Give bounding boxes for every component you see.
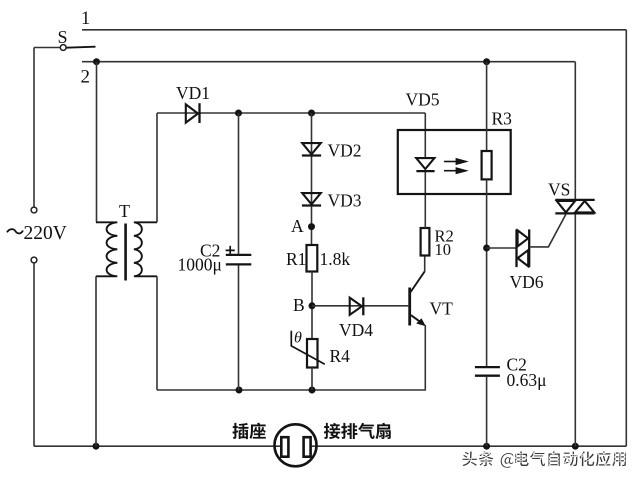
svg-text:VS: VS — [548, 180, 570, 200]
wire C2b bottom lead — [486, 377, 488, 446]
capacitor C2b plates — [475, 366, 500, 368]
wire R3 top lead — [486, 62, 488, 151]
diode VD4 — [350, 298, 362, 315]
svg-text:220V: 220V — [24, 223, 67, 244]
svg-text:2: 2 — [81, 67, 91, 88]
optocoupler VD5 box — [398, 130, 511, 194]
node junction line2/transformer — [93, 58, 100, 65]
wire R4 bottom — [311, 368, 313, 391]
wire to VD6 — [487, 247, 517, 249]
transformer T core — [124, 224, 127, 281]
switch S pole terminal — [60, 45, 66, 51]
transformer T primary winding — [96, 222, 117, 276]
svg-text:0.63μ: 0.63μ — [507, 370, 547, 390]
transistor VT emitter — [411, 315, 424, 324]
svg-text:VD3: VD3 — [328, 191, 362, 211]
wire net-1 top rail — [82, 29, 626, 31]
wire B to VT base — [312, 305, 408, 307]
svg-text:10: 10 — [435, 240, 452, 259]
opto LED — [416, 158, 434, 169]
diode VD1 — [186, 104, 198, 122]
wire secondary top up to VD1 line — [156, 113, 158, 222]
svg-text:VD6: VD6 — [510, 272, 544, 292]
terminal supply bottom — [31, 257, 37, 263]
wire primary bottom to bottom rail — [95, 276, 97, 446]
wire R3 bottom lead — [486, 179, 488, 367]
label 接排气扇 — [324, 423, 340, 439]
diac VD6 — [515, 229, 517, 267]
svg-text:θ: θ — [294, 330, 302, 347]
svg-text:S: S — [58, 27, 68, 47]
wire C2a bottom lead — [238, 266, 240, 391]
terminal supply top — [31, 207, 37, 213]
socket slot right — [304, 437, 311, 457]
svg-text:1: 1 — [81, 9, 90, 29]
svg-text:R1: R1 — [286, 249, 306, 269]
wire VS top lead — [574, 62, 576, 199]
transformer T secondary winding — [134, 222, 157, 276]
wire VT collector up to R2 — [424, 256, 426, 273]
svg-text:VD5: VD5 — [406, 90, 440, 110]
opto light arrow 1 — [444, 161, 458, 163]
node junction mid/R4 — [309, 387, 316, 394]
wire VS bottom lead — [574, 214, 576, 446]
svg-text:1000μ: 1000μ — [178, 255, 222, 275]
wire net-2 rail — [82, 61, 575, 63]
wire switch left lead — [34, 47, 60, 49]
node junction bottom/VS column — [572, 443, 579, 450]
wire supply bottom to bottom rail — [33, 263, 35, 446]
svg-text:R3: R3 — [492, 109, 513, 129]
opto light arrow 2 — [444, 170, 458, 172]
svg-text:T: T — [119, 201, 130, 221]
node junction line2/R3 column — [483, 58, 490, 65]
label 插座 — [232, 423, 248, 439]
wire VD2 column upper — [311, 113, 313, 245]
node junction bottom/C2b column — [483, 443, 490, 450]
node A — [308, 223, 315, 230]
node junction mid/C2a — [236, 387, 243, 394]
wire bottom rail right of socket — [310, 445, 626, 447]
node junction R3col/VD6 — [483, 245, 490, 252]
wire mid bottom line — [157, 389, 426, 391]
wire C2a top lead — [238, 113, 240, 254]
wire opto LED to R2 — [424, 172, 426, 228]
node B — [309, 302, 316, 309]
socket slot left — [281, 437, 288, 457]
photoresistor R3 — [482, 151, 492, 179]
svg-text:R4: R4 — [330, 346, 351, 366]
wire VT emitter down — [424, 325, 426, 390]
svg-text:1.8k: 1.8k — [320, 249, 351, 269]
node junction VD1/C2a — [235, 110, 242, 117]
wire R1 to R4 — [311, 272, 313, 340]
wire bottom rail left of socket — [34, 445, 281, 447]
diode VD2 — [302, 143, 321, 154]
wire VD1 line — [157, 112, 425, 114]
thermistor R4 — [307, 339, 318, 368]
switch S arm — [66, 47, 95, 48]
svg-text:A: A — [291, 216, 304, 236]
wire net2 down to primary — [96, 62, 98, 223]
diode VD3 — [302, 193, 321, 204]
watermark 头条@电气自动化应用 — [462, 451, 477, 466]
wire into opto LED — [424, 113, 426, 158]
resistor R1 — [307, 245, 318, 272]
resistor R2 — [421, 228, 430, 256]
svg-text:VD2: VD2 — [328, 141, 362, 161]
svg-text:VT: VT — [430, 299, 454, 319]
svg-text:VD4: VD4 — [339, 320, 373, 340]
svg-text:B: B — [293, 295, 305, 315]
transistor VT base bar — [408, 288, 411, 326]
socket circle — [275, 424, 317, 466]
wire left drop to supply — [33, 48, 35, 208]
capacitor C2a plates — [226, 254, 252, 256]
wire secondary bottom down — [156, 276, 158, 390]
node junction VD1/VD2 column — [308, 110, 315, 117]
triac VS — [555, 199, 594, 201]
node junction bottom/transformer primary — [93, 443, 100, 450]
svg-text:VD1: VD1 — [176, 83, 210, 103]
wire right edge (net 1 down to bottom rail) — [625, 30, 627, 446]
wire VS gate — [530, 214, 565, 247]
transistor VT collector — [411, 271, 425, 292]
capacitor C2a polarity + — [226, 246, 235, 255]
label ~220V AC tilde — [7, 229, 23, 233]
